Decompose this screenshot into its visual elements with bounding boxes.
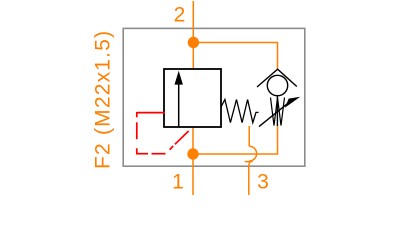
adjustment arrow [259, 104, 288, 127]
pilot relief ball [267, 75, 287, 95]
pilot relief seat [257, 69, 297, 87]
junction dot top [188, 37, 199, 48]
flow arrow inside valve [178, 84, 180, 126]
svg-text:1: 1 [172, 170, 184, 193]
wire port 2 vertical [192, 1, 194, 69]
junction dot bottom [187, 148, 198, 159]
svg-text:F2 (M22x1.5): F2 (M22x1.5) [92, 30, 115, 169]
svg-text:3: 3 [257, 170, 269, 193]
pilot relief stem [276, 96, 278, 126]
main valve body (square envelope) [164, 69, 221, 127]
valve assembly boundary (envelope) [123, 28, 305, 166]
wire drain line to port 3 with hop [245, 126, 257, 195]
svg-text:2: 2 [174, 4, 186, 27]
wire bottom branch from pilot relief to junction [193, 126, 278, 154]
wire top branch to pilot relief [193, 43, 277, 69]
wire valve bottom to port 1 [192, 127, 194, 195]
valve spring (horizontal) [221, 100, 259, 123]
pilot adjustable spring (compressed) [271, 98, 285, 126]
pilot line (dashed, red) [137, 112, 189, 155]
